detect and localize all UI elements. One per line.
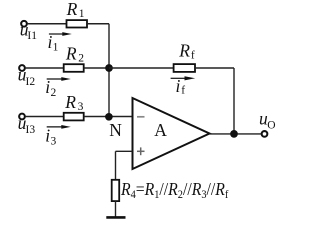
svg-text:f: f xyxy=(181,85,185,97)
wire row1 left xyxy=(28,23,67,25)
resistor Rf xyxy=(174,64,195,72)
plus input mark xyxy=(137,147,145,155)
wire R4 to ground xyxy=(115,201,117,217)
label A xyxy=(154,120,167,140)
svg-text:R4=R1//R2//R3//Rf: R4=R1//R2//R3//Rf xyxy=(120,179,229,201)
wire feedback top xyxy=(109,67,174,69)
terminal u_I2 xyxy=(19,65,25,71)
wire row2 left xyxy=(26,67,64,69)
wire row3 left xyxy=(26,116,64,118)
label i3 xyxy=(45,125,56,147)
label R2 xyxy=(65,44,84,65)
label i2 xyxy=(45,77,56,99)
svg-text:3: 3 xyxy=(78,101,84,113)
resistor R2 xyxy=(64,64,84,72)
label i1 xyxy=(48,32,59,54)
svg-text:A: A xyxy=(154,120,167,140)
svg-text:1: 1 xyxy=(53,42,59,54)
terminal u_I1 xyxy=(21,21,27,27)
svg-text:I3: I3 xyxy=(26,124,36,136)
label u_O xyxy=(259,109,276,132)
junction node N xyxy=(105,113,113,121)
svg-text:I1: I1 xyxy=(27,30,37,42)
svg-text:i: i xyxy=(176,76,181,96)
junction output xyxy=(230,130,238,138)
wire feedback right xyxy=(195,67,234,69)
label R1 xyxy=(66,0,85,20)
label N xyxy=(109,120,122,140)
svg-text:O: O xyxy=(267,120,275,132)
arrow if xyxy=(171,76,196,80)
svg-text:R: R xyxy=(178,40,190,60)
arrow i1 xyxy=(49,32,72,36)
svg-text:i: i xyxy=(45,77,50,97)
label u_I1 xyxy=(20,20,38,42)
resistor R3 xyxy=(64,113,84,121)
label Rf xyxy=(178,40,195,61)
svg-text:R: R xyxy=(66,0,78,19)
arrow i2 xyxy=(47,77,71,81)
wire plus vertical xyxy=(115,151,117,180)
label if xyxy=(176,76,186,97)
svg-text:R: R xyxy=(65,44,77,64)
terminal u_I3 xyxy=(19,114,25,120)
label R3 xyxy=(64,92,83,113)
svg-text:3: 3 xyxy=(51,135,57,147)
svg-text:1: 1 xyxy=(79,8,85,20)
svg-text:f: f xyxy=(191,49,195,61)
svg-text:2: 2 xyxy=(78,53,84,65)
ground xyxy=(106,216,125,219)
wire feedback vertical xyxy=(233,68,235,134)
wire output xyxy=(210,133,262,135)
svg-text:I2: I2 xyxy=(26,76,36,88)
wire bus vertical xyxy=(108,24,110,117)
label u_I2 xyxy=(18,65,36,88)
wire row1 right xyxy=(87,23,109,25)
svg-text:R: R xyxy=(64,92,76,112)
resistor R4 xyxy=(112,180,120,201)
svg-text:i: i xyxy=(45,125,50,145)
svg-text:2: 2 xyxy=(51,87,57,99)
label R4 formula xyxy=(120,179,229,201)
label u_I3 xyxy=(18,113,36,136)
terminal u_O xyxy=(262,131,268,137)
junction row2 xyxy=(105,64,113,72)
arrow i3 xyxy=(47,125,71,129)
resistor R1 xyxy=(67,20,88,27)
wire plus input xyxy=(116,150,133,152)
minus input mark xyxy=(137,116,145,118)
svg-text:N: N xyxy=(109,120,122,140)
wire row2 right xyxy=(84,67,109,69)
wire row3 right xyxy=(84,116,133,118)
op-amp A xyxy=(133,98,210,169)
